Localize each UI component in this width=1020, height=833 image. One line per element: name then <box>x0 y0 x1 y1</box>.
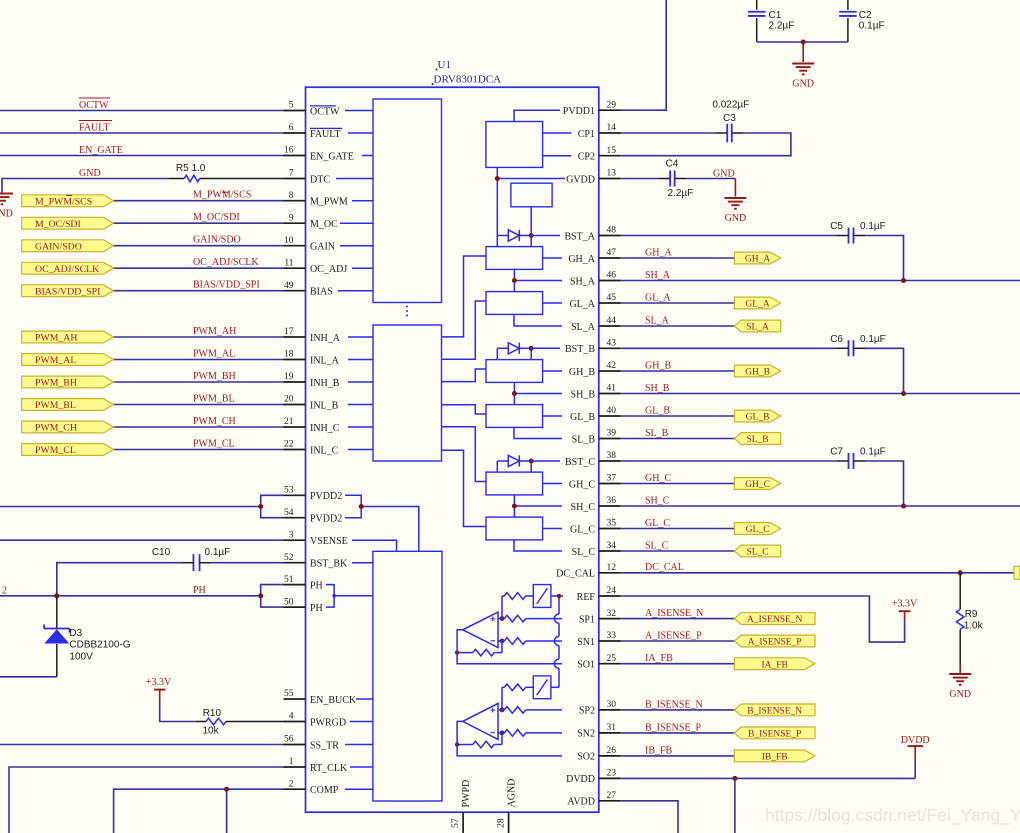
svg-text:C4: C4 <box>666 159 679 170</box>
capacitor C1 <box>748 0 766 42</box>
port flag SL_C <box>734 545 780 558</box>
svg-text:BST_C: BST_C <box>565 457 595 468</box>
pin 8 M_PWM <box>284 191 348 208</box>
wire output SO2 <box>457 721 562 756</box>
svg-text:GL_B: GL_B <box>570 412 595 423</box>
label D3 voltage <box>69 652 93 663</box>
svg-text:GL_A: GL_A <box>745 300 769 310</box>
svg-text:36: 36 <box>607 496 617 506</box>
wire GL_A to pin <box>543 302 562 304</box>
label net GL_C <box>645 518 670 529</box>
pin 55 EN_BUCK <box>284 689 357 706</box>
svg-text:GL_C: GL_C <box>570 524 595 535</box>
svg-text:SL_A: SL_A <box>571 322 596 333</box>
diode D3 <box>44 596 70 677</box>
label net GH_B <box>645 360 671 371</box>
svg-text:B_ISENSE_N: B_ISENSE_N <box>747 707 802 717</box>
wire DVDD drop <box>734 778 736 833</box>
capacitor C7 <box>837 453 865 469</box>
svg-text:27: 27 <box>607 791 617 801</box>
svg-text:PVDD2: PVDD2 <box>310 491 342 502</box>
svg-text:FAULT: FAULT <box>310 129 341 140</box>
label R10 <box>203 708 222 719</box>
label C5 <box>830 221 843 232</box>
pin 7 DTC <box>284 169 331 186</box>
junction PVDD2 inner <box>359 504 364 509</box>
svg-text:51: 51 <box>284 575 294 585</box>
svg-text:24: 24 <box>607 586 617 596</box>
label net EN_GATE <box>79 145 123 156</box>
svg-text:SO2: SO2 <box>577 752 595 763</box>
wire net PH <box>0 595 261 597</box>
pin 39 SL_B <box>572 429 621 446</box>
svg-text:0.1µF: 0.1µF <box>205 547 231 558</box>
svg-text:SL_A: SL_A <box>645 315 670 326</box>
svg-text:49: 49 <box>284 281 294 291</box>
svg-text:CP2: CP2 <box>578 152 595 163</box>
wire net A_ISENSE_P <box>621 640 735 642</box>
wire INL to GL_C <box>442 450 487 526</box>
svg-text:GND: GND <box>0 209 13 220</box>
wire net COMP <box>114 789 284 833</box>
cal switch block 1 <box>533 585 551 608</box>
svg-text:A_ISENSE_N: A_ISENSE_N <box>645 608 703 619</box>
wire pin 17 to block2 <box>348 336 373 338</box>
svg-text:33: 33 <box>607 631 617 641</box>
wire SH_C node <box>514 495 562 517</box>
junction GVDD rail <box>495 176 500 181</box>
junction DC_CAL R9 <box>958 570 963 575</box>
svg-text:C6: C6 <box>830 334 843 345</box>
wire net OC_ADJ/SCLK <box>113 267 283 269</box>
resistor R_FB2 <box>457 733 502 748</box>
svg-text:53: 53 <box>284 486 294 496</box>
port flag GL_A <box>734 297 780 310</box>
port flag GH_C <box>734 478 780 491</box>
svg-text:PWM_BL: PWM_BL <box>35 400 76 411</box>
wire net OCTW <box>0 110 284 112</box>
svg-text:16: 16 <box>284 146 294 156</box>
wire CP1 internal <box>543 132 572 134</box>
port flag PWM_AH <box>22 331 114 344</box>
wire output SO1 <box>457 630 562 664</box>
svg-text:54: 54 <box>284 508 294 518</box>
wire net SH_C <box>621 505 1020 507</box>
svg-text:DC_CAL: DC_CAL <box>556 569 595 580</box>
svg-text:26: 26 <box>607 746 617 756</box>
pin 19 INH_B <box>284 372 340 389</box>
label net OC_ADJ/SCLK wire <box>193 257 259 268</box>
resistor R10 <box>196 718 284 725</box>
label R10 value <box>203 726 220 737</box>
label C2 value <box>859 21 885 32</box>
capacitor C10 <box>182 554 284 571</box>
pin 53 PVDD2 <box>284 486 343 503</box>
label net A_ISENSE_N <box>645 608 703 619</box>
svg-text:PWM_BH: PWM_BH <box>35 378 77 389</box>
svg-text:47: 47 <box>607 248 617 258</box>
svg-text:23: 23 <box>607 769 617 779</box>
svg-text:B_ISENSE_N: B_ISENSE_N <box>645 699 703 710</box>
wire INL to GL_A <box>442 301 487 359</box>
pin 29 PVDD1 <box>563 100 621 117</box>
label net BIAS/VDD_SPI wire <box>193 280 260 291</box>
svg-text:11: 11 <box>284 258 293 268</box>
junction + input 2 <box>500 708 505 713</box>
svg-text:1.0k: 1.0k <box>964 621 984 632</box>
wire BST_B cathode drop <box>530 348 532 359</box>
wire PH outer bracket <box>261 585 284 608</box>
svg-text:M_OC/SDI: M_OC/SDI <box>35 219 81 230</box>
wire GND drop at C4 <box>734 179 736 197</box>
wire CP2 internal <box>543 155 572 157</box>
svg-text:BIAS/VDD_SPI: BIAS/VDD_SPI <box>193 280 260 291</box>
internal gate-logic block 2 <box>373 325 442 461</box>
wire net SL_A <box>621 325 735 327</box>
svg-text:GL_A: GL_A <box>569 299 595 310</box>
label C4 <box>666 159 679 170</box>
wire C5 to SH_A <box>865 236 904 281</box>
port flag OC_ADJ/SCLK <box>22 262 114 275</box>
pin 20 INL_B <box>284 395 339 412</box>
ground symbol R9 <box>949 674 971 700</box>
svg-text:10: 10 <box>284 236 294 246</box>
wire INL to GL_B <box>442 405 487 414</box>
wire net GL_A <box>621 302 735 304</box>
pin 16 EN_GATE <box>284 146 354 163</box>
svg-text:INL_A: INL_A <box>310 355 340 366</box>
label net PWM_AL wire <box>193 349 235 360</box>
wire net PWM_CL <box>113 449 283 451</box>
svg-text:DC_CAL: DC_CAL <box>645 562 684 573</box>
wire net GND to R5 <box>2 179 168 193</box>
wire net SL_B <box>621 438 735 440</box>
svg-text:38: 38 <box>607 451 617 461</box>
label D3 part <box>69 640 130 651</box>
internal regulator block 5 <box>511 183 552 207</box>
pin 5 OCTW <box>284 101 341 118</box>
svg-text:GL_A: GL_A <box>645 292 671 303</box>
svg-text:A_ISENSE_P: A_ISENSE_P <box>645 630 702 641</box>
label net GND <box>79 168 101 179</box>
port flag SL_A <box>734 320 780 333</box>
wire net FAULT <box>0 132 284 134</box>
label C3 value <box>712 100 749 111</box>
svg-text:BIAS/VDD_SPI: BIAS/VDD_SPI <box>35 286 100 297</box>
port flag A_ISENSE_N <box>734 613 815 626</box>
junction COMP <box>224 787 229 792</box>
wire C4 to GND <box>675 178 736 180</box>
svg-text:12: 12 <box>607 563 617 573</box>
svg-text:22: 22 <box>284 440 294 450</box>
pin 48 BST_A <box>564 226 620 243</box>
wire pin 5 to block1 <box>345 110 373 112</box>
svg-text:FAULT: FAULT <box>79 123 110 134</box>
power DVDD <box>901 735 930 760</box>
svg-text:INH_B: INH_B <box>310 378 340 389</box>
wire COMP drop <box>226 789 228 833</box>
svg-text:OCTW: OCTW <box>310 106 340 117</box>
pin 15 CP2 <box>578 146 621 163</box>
pin 32 SP1 <box>579 609 621 626</box>
pin 6 FAULT <box>284 123 343 140</box>
svg-text:PH: PH <box>193 585 206 596</box>
junction BST_B cathode <box>529 346 534 351</box>
wire C7 to SH_C <box>865 461 904 506</box>
capacitor C2 <box>839 0 857 42</box>
wire net GH_C <box>621 483 735 485</box>
svg-text:PWM_AL: PWM_AL <box>35 355 76 366</box>
svg-text:INL_C: INL_C <box>310 445 339 456</box>
wire BST_B anode drop <box>496 348 498 359</box>
port flag SL_B <box>734 433 780 446</box>
wire net BST_C <box>621 460 837 462</box>
wire net SH_A <box>621 280 1020 282</box>
svg-text:A_ISENSE_N: A_ISENSE_N <box>747 615 803 625</box>
resistor R9 <box>956 573 964 664</box>
svg-text:GND: GND <box>713 169 735 180</box>
capacitor C6 <box>837 340 865 356</box>
svg-text:0.1µF: 0.1µF <box>860 447 886 458</box>
svg-text:GH_A: GH_A <box>568 254 595 265</box>
svg-text:PWM_CL: PWM_CL <box>35 445 76 456</box>
label C2 <box>859 10 872 21</box>
wire net GAIN/SDO <box>113 245 283 247</box>
svg-text:50: 50 <box>284 597 294 607</box>
junction + input 1 <box>500 616 505 621</box>
internal buck block 3 <box>373 551 442 801</box>
wire SH_A node <box>514 269 562 291</box>
wire BST_C anode drop <box>496 461 498 472</box>
svg-text:SH_C: SH_C <box>645 495 670 506</box>
wire pin 56 to block3 <box>345 744 373 746</box>
svg-text:40: 40 <box>607 406 617 416</box>
svg-text:SL_C: SL_C <box>572 547 596 558</box>
svg-text:SH_B: SH_B <box>571 389 596 400</box>
svg-text:EN_BUCK: EN_BUCK <box>310 695 357 706</box>
svg-text:PH: PH <box>310 580 323 591</box>
label net FAULT <box>79 121 112 134</box>
svg-text:C3: C3 <box>723 113 736 124</box>
pin 44 SL_A <box>571 316 621 333</box>
svg-text:M_PWM/SCS: M_PWM/SCS <box>193 190 251 201</box>
pin 23 DVDD <box>566 769 621 786</box>
svg-text:D3: D3 <box>69 628 82 639</box>
svg-text:GL_B: GL_B <box>645 405 670 416</box>
junction REF <box>557 594 561 598</box>
pin 18 INL_A <box>284 350 340 367</box>
svg-text:PWM_BH: PWM_BH <box>193 371 236 382</box>
label net GL_B <box>645 405 670 416</box>
wire net VSENSE <box>0 539 284 541</box>
wire net DVDD <box>621 760 915 778</box>
svg-text:EN_GATE: EN_GATE <box>79 145 123 156</box>
wire REF vertical <box>551 596 563 687</box>
svg-text:SH_B: SH_B <box>645 383 670 394</box>
label C1 <box>769 10 782 21</box>
junction PVDD2 outer <box>258 504 263 509</box>
svg-text:SL_B: SL_B <box>746 435 768 445</box>
label net IA_FB <box>645 653 673 664</box>
svg-text:C10: C10 <box>152 547 171 558</box>
svg-text:SP2: SP2 <box>579 706 595 717</box>
junction PH at D3 <box>54 593 59 598</box>
svg-text:GL_C: GL_C <box>645 518 670 529</box>
port flag PWM_CL <box>22 444 114 457</box>
label net GL_A <box>645 292 671 303</box>
svg-text:IB_FB: IB_FB <box>762 753 788 763</box>
junction SH_C <box>901 504 906 509</box>
wire net PWM_BL <box>113 404 283 406</box>
svg-text:PWRGD: PWRGD <box>310 717 346 728</box>
svg-text:B_ISENSE_P: B_ISENSE_P <box>748 730 801 740</box>
pin 56 SS_TR <box>284 735 340 752</box>
wire GH_C to pin <box>543 483 562 485</box>
port flag DC_CAL cut <box>1014 566 1020 579</box>
svg-text:GVDD: GVDD <box>566 174 595 185</box>
pin 24 REF <box>577 586 621 603</box>
svg-text:SL_C: SL_C <box>645 540 669 551</box>
port flag PWM_BL <box>22 399 114 412</box>
junction DVDD <box>732 776 737 781</box>
ellipsis dots between blocks <box>406 306 408 317</box>
svg-text:PWM_AL: PWM_AL <box>193 349 235 360</box>
junction PH outer <box>258 593 263 598</box>
wire SL_B node <box>514 427 562 438</box>
label C3 <box>723 113 736 124</box>
label net GND at C4 <box>713 169 735 180</box>
svg-text:GH_C: GH_C <box>569 479 595 490</box>
wire to GND top <box>802 42 804 62</box>
junction - input 2 <box>500 731 505 736</box>
wire pin 9 to block1 <box>340 222 373 224</box>
wire GH_A to pin <box>543 257 562 259</box>
pin 17 INH_A <box>284 327 341 344</box>
wire net GVDD to C4 <box>621 178 670 180</box>
junction SH_C <box>512 504 517 509</box>
label net M_PWM/SCS wire <box>193 190 251 201</box>
wire net GL_B <box>621 415 735 417</box>
svg-text:21: 21 <box>284 417 294 427</box>
svg-text:29: 29 <box>607 100 617 110</box>
svg-text:13: 13 <box>607 169 617 179</box>
wire pin 7 to block1 <box>336 178 373 180</box>
label net SH_C <box>645 495 670 506</box>
label net SH_A <box>645 270 671 281</box>
label net 2 cut <box>2 586 7 597</box>
wire BST_C cathode drop <box>530 461 532 472</box>
pin 34 SL_C <box>572 541 621 558</box>
svg-text:SH_C: SH_C <box>571 502 596 513</box>
svg-text:C2: C2 <box>859 10 872 21</box>
wire +3.3V to R10 <box>160 700 196 722</box>
svg-text:44: 44 <box>607 316 617 326</box>
pin 22 INL_C <box>284 440 339 457</box>
port flag GAIN/SDO <box>22 240 114 253</box>
wire net CP1 loop <box>621 133 791 156</box>
wire PVDD2 outer bracket <box>261 495 284 517</box>
port flag A_ISENSE_P <box>734 635 815 648</box>
label net SL_B <box>645 428 669 439</box>
wire net DC_CAL <box>621 572 1020 574</box>
pin 41 SH_B <box>571 384 621 401</box>
wire cal drop 2 <box>501 687 503 710</box>
pin 51 PH <box>284 575 323 592</box>
svg-text:BST_A: BST_A <box>564 231 595 242</box>
svg-text:39: 39 <box>607 429 617 439</box>
internal charge-pump block 4 <box>486 122 543 168</box>
pin 3 VSENSE <box>284 530 348 547</box>
svg-text:56: 56 <box>284 735 294 745</box>
svg-text:2: 2 <box>289 779 294 789</box>
IC U1 DRV8301DCA body <box>306 87 599 812</box>
svg-text:BST_B: BST_B <box>565 344 595 355</box>
pin 27 AVDD <box>567 791 620 808</box>
pin 26 SO2 <box>577 746 621 763</box>
svg-text:GAIN/SDO: GAIN/SDO <box>35 241 82 252</box>
wire PVDD2 inner bracket <box>345 495 419 551</box>
wire net SL_C <box>621 550 735 552</box>
diode bootstrap D_BST_A <box>497 230 531 241</box>
svg-text:RT_CLK: RT_CLK <box>310 763 348 774</box>
svg-text:AGND: AGND <box>507 779 518 808</box>
wire GH_B to pin <box>543 370 562 372</box>
diode bootstrap D_BST_C <box>497 455 531 466</box>
junction PH inner <box>332 594 336 598</box>
svg-text:CP1: CP1 <box>578 129 595 140</box>
pin 37 GH_C <box>569 474 621 491</box>
label net SH_B <box>645 383 670 394</box>
svg-text:20: 20 <box>284 395 294 405</box>
wire GL_C to pin <box>543 528 562 530</box>
svg-text:GAIN: GAIN <box>310 242 335 253</box>
svg-text:4: 4 <box>289 712 294 722</box>
pin 49 BIAS <box>284 281 333 298</box>
wire net PVDD2 bus <box>0 506 261 508</box>
svg-text:GH_B: GH_B <box>645 360 671 371</box>
wire net SS_TR <box>0 744 284 746</box>
wire net B_ISENSE_P <box>621 732 735 734</box>
wire net BIAS/VDD_SPI <box>113 290 283 292</box>
label net A_ISENSE_P <box>645 630 702 641</box>
svg-text:9: 9 <box>289 213 294 223</box>
svg-text:R10: R10 <box>203 708 222 719</box>
wire net PWM_BH <box>113 381 283 383</box>
svg-text:R5 1.0: R5 1.0 <box>176 163 206 174</box>
wire net GH_A <box>621 257 735 259</box>
svg-text:REF: REF <box>577 592 596 603</box>
diode bootstrap D_BST_B <box>497 343 531 354</box>
svg-text:PWM_CH: PWM_CH <box>35 423 77 434</box>
junction - input 1 <box>500 639 505 644</box>
svg-text:U1: U1 <box>438 59 451 71</box>
svg-text:8: 8 <box>289 191 294 201</box>
capacitor C4 <box>670 171 675 187</box>
resistor R_cal_1 <box>502 593 533 600</box>
svg-text:M_OC/SDI: M_OC/SDI <box>193 212 240 223</box>
pin 47 GH_A <box>568 248 620 265</box>
junction SH_B <box>901 391 906 396</box>
wire pin 20 to block2 <box>348 404 373 406</box>
ground symbol left edge <box>0 194 13 220</box>
svg-text:OC_ADJ/SCLK: OC_ADJ/SCLK <box>193 257 259 268</box>
svg-text:SH_A: SH_A <box>645 270 671 281</box>
pin 2 COMP <box>284 779 339 796</box>
svg-text:INL_B: INL_B <box>310 400 339 411</box>
svg-text:PWM_CL: PWM_CL <box>193 439 235 450</box>
wire net GH_B <box>621 370 735 372</box>
port flag GH_A <box>734 252 780 265</box>
